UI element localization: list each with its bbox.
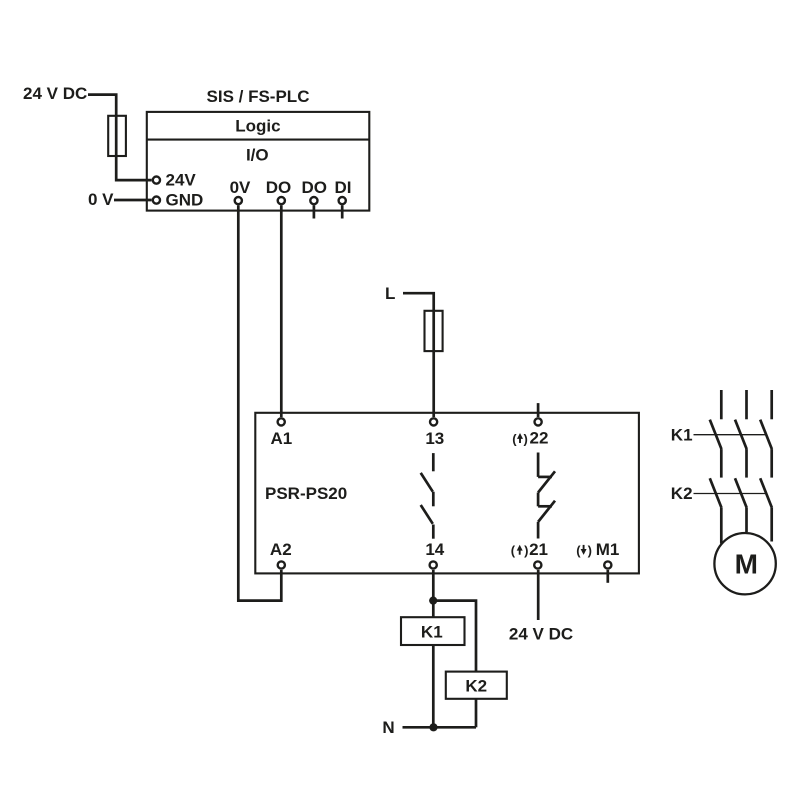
wire L to fuse F2 and terminal 13 xyxy=(403,293,434,417)
contact K1 blade phase 3 xyxy=(760,420,772,450)
junction 14/K2 xyxy=(429,597,437,605)
wire N line xyxy=(403,726,477,729)
stub DI xyxy=(341,205,344,218)
contact K2 blade phase 3 xyxy=(760,478,772,508)
wire K2 to N xyxy=(475,699,478,728)
svg-text:Logic: Logic xyxy=(235,116,280,135)
wire 21 down xyxy=(537,570,540,620)
contact 13-14 blade 2 xyxy=(421,505,433,524)
contactor phase 3 top stub xyxy=(770,390,773,419)
contactor phase 3 mid xyxy=(770,449,773,478)
svg-text:13: 13 xyxy=(425,429,444,448)
relay U2 box PSR-PS20 xyxy=(255,413,639,574)
svg-text:14: 14 xyxy=(425,540,444,559)
terminal 13 xyxy=(430,418,437,425)
contact 22-21 mid wire xyxy=(537,493,540,507)
svg-text:(: ( xyxy=(576,543,581,558)
svg-text:K1: K1 xyxy=(671,426,693,445)
svg-text:L: L xyxy=(385,284,395,303)
motor M circle xyxy=(714,533,775,594)
contact 22-21 foot 2 xyxy=(538,505,552,508)
contact 13-14 blade 1 xyxy=(421,473,433,492)
contact 13-14 mid wire xyxy=(432,492,435,507)
contact K2 linkage line xyxy=(694,493,767,495)
contactor phase 2 top stub xyxy=(745,390,748,419)
contactor phase 1 bottom xyxy=(720,508,723,544)
wire 0V to A2 xyxy=(238,205,281,600)
contact 22-21 blade 2 xyxy=(538,501,555,522)
svg-text:N: N xyxy=(382,718,394,737)
svg-text:A2: A2 xyxy=(270,540,292,559)
contact 13-14 upper stub xyxy=(432,453,435,471)
stub terminal 22 xyxy=(537,403,540,417)
wire branch to K2 coil xyxy=(433,601,476,672)
svg-text:DI: DI xyxy=(335,178,352,197)
svg-text:(: ( xyxy=(511,543,516,558)
contactor phase 2 mid xyxy=(745,449,748,478)
fuse F2 xyxy=(425,311,443,351)
wire 24VDC to fuse F1 and to 24V terminal xyxy=(88,95,152,181)
svg-text:(: ( xyxy=(512,431,517,446)
contact 22-21 foot 1 xyxy=(538,476,552,479)
svg-text:DO: DO xyxy=(266,178,292,197)
svg-text:GND: GND xyxy=(166,190,204,209)
coil K1 xyxy=(401,617,465,645)
svg-text:): ) xyxy=(524,431,528,446)
svg-text:0 V: 0 V xyxy=(88,190,114,209)
svg-text:I/O: I/O xyxy=(246,146,269,165)
contactor phase 1 mid xyxy=(720,449,723,478)
terminal A1 xyxy=(278,418,285,425)
svg-text:K2: K2 xyxy=(465,677,487,696)
svg-text:K2: K2 xyxy=(671,484,693,503)
wire DO1 to A1 xyxy=(280,205,283,417)
fuse F1 xyxy=(108,116,126,156)
svg-text:M1: M1 xyxy=(596,540,620,559)
svg-text:0V: 0V xyxy=(230,178,251,197)
svg-text:22: 22 xyxy=(530,429,549,448)
svg-text:21: 21 xyxy=(529,540,548,559)
coil K2 xyxy=(446,672,507,699)
wire 14 to K1 coil xyxy=(432,570,435,618)
contactor phase 1 top stub xyxy=(720,390,723,419)
wire 0V to GND terminal xyxy=(114,199,152,202)
terminal 14 xyxy=(430,561,437,568)
stub M1 xyxy=(606,570,609,583)
contact 22-21 lower wire xyxy=(537,522,540,539)
svg-text:24 V DC: 24 V DC xyxy=(23,84,87,103)
contact K2 blade phase 1 xyxy=(710,478,722,508)
terminal 22 xyxy=(535,418,542,425)
svg-text:DO: DO xyxy=(301,178,327,197)
Logic section divider xyxy=(147,139,369,141)
contactor phase 2 bottom xyxy=(745,508,748,532)
svg-text:A1: A1 xyxy=(271,429,293,448)
contact K1 blade phase 1 xyxy=(710,420,722,450)
contactor phase 3 bottom xyxy=(770,508,773,542)
svg-text:K1: K1 xyxy=(421,623,443,642)
contact 22-21 blade 1 xyxy=(538,471,555,492)
contact 22-21 upper stub xyxy=(537,453,540,477)
svg-text:): ) xyxy=(588,543,592,558)
terminal M1 xyxy=(604,561,611,568)
contact 13-14 lower wire xyxy=(432,525,435,539)
terminal A2 xyxy=(278,561,285,568)
svg-text:M: M xyxy=(735,548,758,579)
terminal 24V xyxy=(153,177,160,184)
svg-text:24 V DC: 24 V DC xyxy=(509,625,573,644)
wire K1 to N xyxy=(432,645,435,727)
contact K1 blade phase 2 xyxy=(735,420,747,450)
svg-text:24V: 24V xyxy=(166,171,197,190)
contact K2 blade phase 2 xyxy=(735,478,747,508)
svg-text:PSR-PS20: PSR-PS20 xyxy=(265,484,347,503)
terminal GND xyxy=(153,197,160,204)
svg-text:): ) xyxy=(524,543,528,558)
junction N xyxy=(429,723,437,731)
svg-text:SIS / FS-PLC: SIS / FS-PLC xyxy=(207,87,310,106)
contact K1 linkage line xyxy=(694,434,767,436)
terminal 21 xyxy=(534,561,541,568)
stub DO2 xyxy=(313,205,316,218)
